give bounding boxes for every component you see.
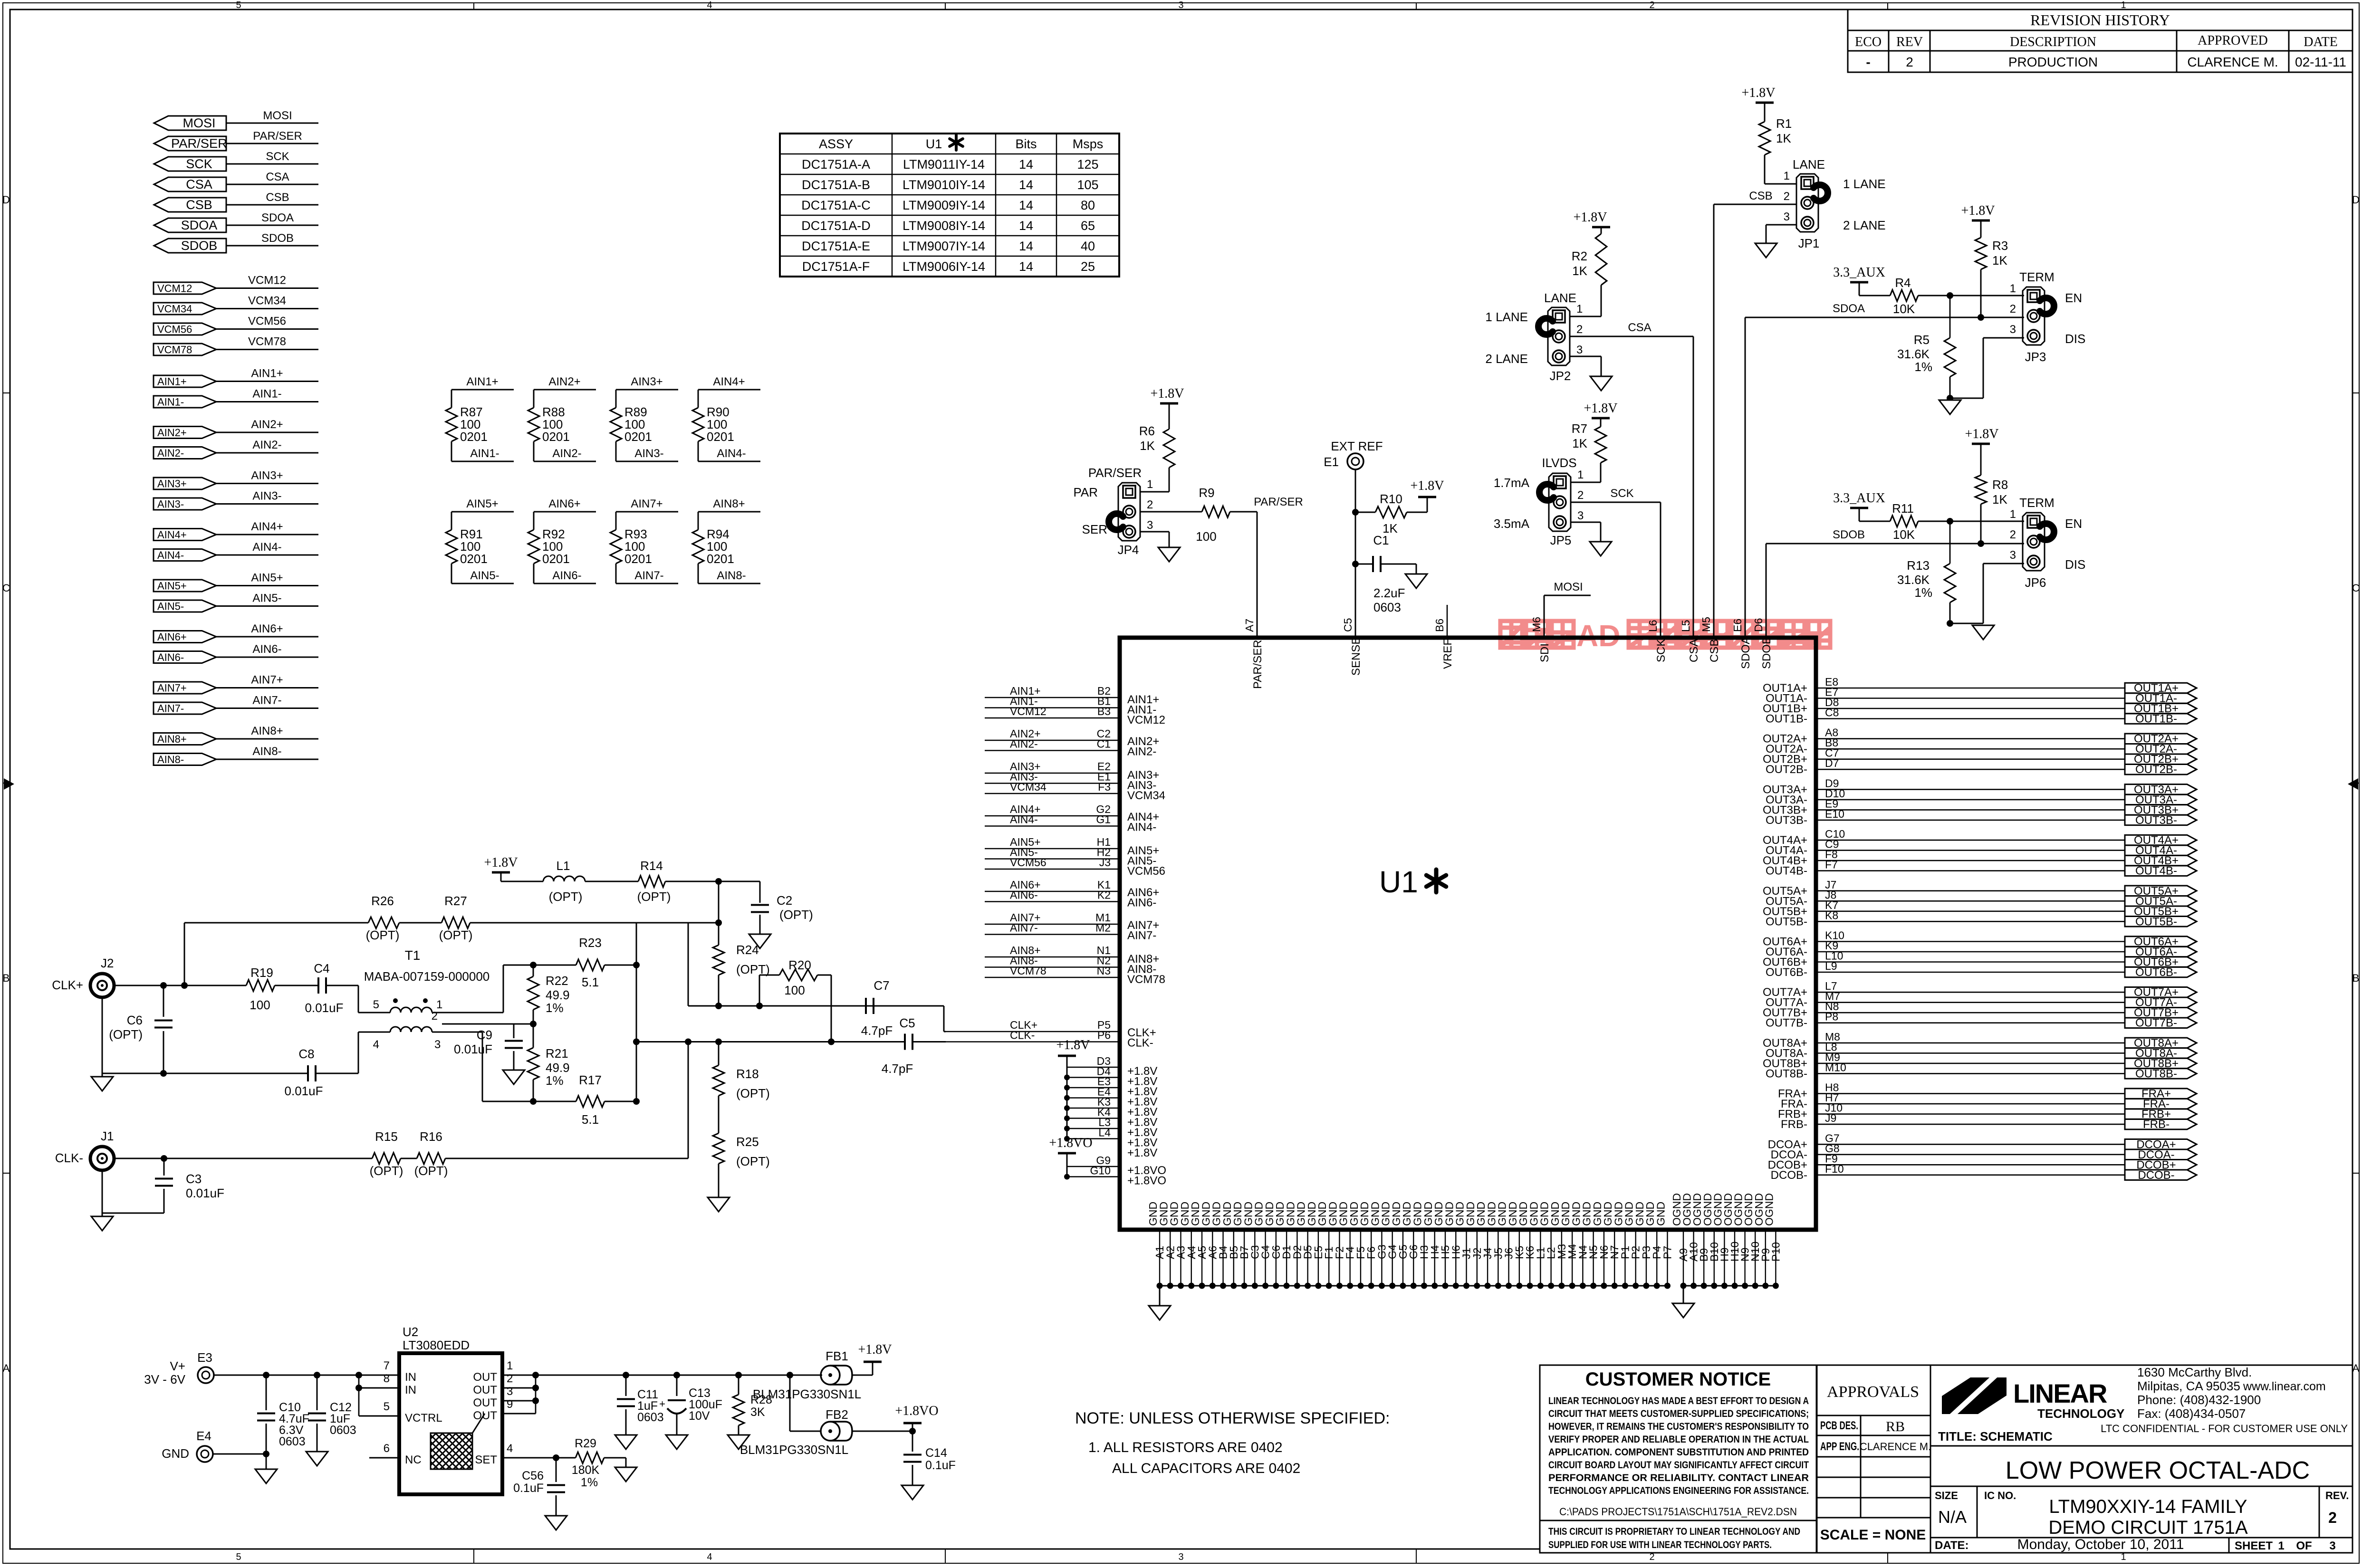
svg-text:OUT6B-: OUT6B- xyxy=(1766,966,1807,979)
svg-text:MABA-007159-000000: MABA-007159-000000 xyxy=(364,969,490,984)
svg-text:LINEAR: LINEAR xyxy=(2013,1378,2107,1408)
svg-text:+1.8V: +1.8V xyxy=(1573,210,1607,225)
svg-text:2: 2 xyxy=(507,1372,513,1385)
svg-text:OUT8B-: OUT8B- xyxy=(2135,1067,2177,1080)
svg-text:0603: 0603 xyxy=(279,1435,306,1448)
svg-text:E1: E1 xyxy=(1324,455,1339,469)
svg-text:OUT: OUT xyxy=(473,1384,497,1396)
svg-text:R11: R11 xyxy=(1892,501,1914,516)
svg-text:M2: M2 xyxy=(1095,922,1111,934)
svg-text:2: 2 xyxy=(2328,1509,2337,1526)
svg-text:P7: P7 xyxy=(1661,1246,1673,1259)
svg-text:PCB DES.: PCB DES. xyxy=(1820,1419,1858,1432)
svg-text:1K: 1K xyxy=(1572,436,1587,450)
svg-text:AIN3+: AIN3+ xyxy=(251,469,283,482)
svg-text:(OPT): (OPT) xyxy=(637,889,671,904)
svg-text:DC1751A-A: DC1751A-A xyxy=(802,157,870,172)
svg-text:AIN5-: AIN5- xyxy=(470,569,499,582)
svg-text:CSB: CSB xyxy=(266,191,289,204)
svg-text:OUT7B-: OUT7B- xyxy=(2135,1017,2177,1030)
svg-text:(OPT): (OPT) xyxy=(779,908,813,922)
svg-text:3: 3 xyxy=(1784,210,1790,223)
svg-text:AIN2+: AIN2+ xyxy=(251,418,283,431)
svg-text:DATE:: DATE: xyxy=(1935,1539,1969,1552)
svg-text:1.7mA: 1.7mA xyxy=(1494,476,1530,490)
svg-text:JP3: JP3 xyxy=(2025,350,2046,364)
svg-text:0.01uF: 0.01uF xyxy=(285,1084,323,1098)
svg-text:DCOB-: DCOB- xyxy=(2138,1169,2174,1182)
svg-text:R29: R29 xyxy=(575,1437,596,1450)
svg-text:1K: 1K xyxy=(1572,264,1587,278)
svg-text:1630 McCarthy Blvd.: 1630 McCarthy Blvd. xyxy=(2137,1365,2252,1379)
svg-text:B3: B3 xyxy=(1097,705,1111,717)
svg-text:JP5: JP5 xyxy=(1550,533,1572,547)
svg-text:C9: C9 xyxy=(477,1028,492,1042)
svg-text:AIN3-: AIN3- xyxy=(252,490,281,503)
svg-text:SDOA: SDOA xyxy=(261,211,294,224)
svg-text:4.7pF: 4.7pF xyxy=(861,1023,893,1038)
svg-text:VCM78: VCM78 xyxy=(248,335,286,348)
svg-text:AIN8-: AIN8- xyxy=(717,569,746,582)
svg-text:9: 9 xyxy=(507,1398,513,1411)
svg-text:25: 25 xyxy=(1081,259,1095,274)
svg-text:2.2uF: 2.2uF xyxy=(1373,586,1405,600)
svg-text:8: 8 xyxy=(384,1372,390,1385)
svg-text:JP4: JP4 xyxy=(1118,543,1139,557)
svg-text:1: 1 xyxy=(2010,508,2016,521)
svg-text:J9: J9 xyxy=(1825,1112,1836,1124)
svg-text:R9: R9 xyxy=(1199,486,1214,500)
svg-text:DATE: DATE xyxy=(2304,35,2338,49)
svg-text:R18: R18 xyxy=(736,1067,759,1081)
svg-text:REVISION HISTORY: REVISION HISTORY xyxy=(2030,11,2170,29)
svg-text:R6: R6 xyxy=(1139,424,1155,438)
svg-text:L1: L1 xyxy=(557,859,570,873)
svg-text:80: 80 xyxy=(1081,198,1095,212)
svg-text:+: + xyxy=(659,1398,665,1410)
svg-text:0603: 0603 xyxy=(637,1411,664,1424)
svg-text:PERFORMANCE OR RELIABILITY. C: PERFORMANCE OR RELIABILITY. CONTACT LINE… xyxy=(1548,1472,1809,1483)
svg-text:0.1uF: 0.1uF xyxy=(513,1482,544,1495)
svg-text:LANE: LANE xyxy=(1793,157,1825,172)
svg-text:10K: 10K xyxy=(1893,527,1915,542)
svg-text:DC1751A-C: DC1751A-C xyxy=(801,198,871,212)
svg-text:AIN4+: AIN4+ xyxy=(713,375,745,388)
svg-text:31.6K: 31.6K xyxy=(1897,347,1930,361)
svg-text:4: 4 xyxy=(373,1038,379,1051)
svg-text:J3: J3 xyxy=(1099,856,1111,869)
svg-text:6: 6 xyxy=(384,1442,390,1455)
svg-text:1%: 1% xyxy=(546,1073,564,1088)
svg-text:U1: U1 xyxy=(926,137,942,151)
svg-text:AIN1-: AIN1- xyxy=(157,396,184,408)
svg-text:DC1751A-E: DC1751A-E xyxy=(802,239,870,253)
svg-text:AIN3+: AIN3+ xyxy=(631,375,663,388)
svg-text:1%: 1% xyxy=(546,1001,564,1015)
svg-text:3: 3 xyxy=(1178,0,1183,10)
svg-text:C3: C3 xyxy=(186,1172,202,1186)
svg-text:OUT: OUT xyxy=(473,1371,497,1384)
svg-text:+1.8V: +1.8V xyxy=(1961,203,1995,218)
svg-text:L9: L9 xyxy=(1825,960,1837,972)
svg-text:C8: C8 xyxy=(298,1047,314,1061)
svg-text:E10: E10 xyxy=(1825,808,1844,820)
svg-text:REV.: REV. xyxy=(2325,1490,2349,1501)
svg-text:TECHNOLOGY APPLICATIONS ENGINE: TECHNOLOGY APPLICATIONS ENGINEERING FOR … xyxy=(1548,1485,1809,1496)
svg-text:2: 2 xyxy=(1906,55,1913,69)
svg-text:CIRCUIT THAT MEETS CUSTOMER-SU: CIRCUIT THAT MEETS CUSTOMER-SUPPLIED SPE… xyxy=(1548,1408,1809,1419)
svg-text:CLARENCE M.: CLARENCE M. xyxy=(2187,55,2278,69)
svg-text:3: 3 xyxy=(1178,1552,1183,1562)
svg-text:+1.8VO: +1.8VO xyxy=(895,1404,938,1418)
svg-text:CSA: CSA xyxy=(266,171,289,183)
svg-text:A: A xyxy=(3,1362,10,1374)
svg-text:10K: 10K xyxy=(1893,302,1915,316)
svg-text:OUT6B-: OUT6B- xyxy=(2135,966,2177,979)
svg-text:1K: 1K xyxy=(1140,439,1155,453)
svg-text:100: 100 xyxy=(784,983,805,997)
svg-text:IC NO.: IC NO. xyxy=(1984,1490,2016,1501)
svg-text:OUT2B-: OUT2B- xyxy=(2135,763,2177,776)
svg-text:OUT: OUT xyxy=(473,1409,497,1422)
svg-text:FRB-: FRB- xyxy=(2143,1118,2170,1131)
svg-text:R3: R3 xyxy=(1992,239,2008,253)
svg-text:CSB: CSB xyxy=(186,198,212,212)
svg-text:NC: NC xyxy=(405,1453,422,1466)
svg-text:Msps: Msps xyxy=(1073,137,1104,151)
svg-text:AIN8-: AIN8- xyxy=(252,745,281,758)
svg-text:AIN2-: AIN2- xyxy=(157,447,184,459)
svg-text:CSA: CSA xyxy=(1628,321,1651,334)
svg-text:+1.8VO: +1.8VO xyxy=(1127,1175,1166,1187)
svg-text:R16: R16 xyxy=(420,1129,442,1144)
svg-text:AIN4-: AIN4- xyxy=(252,541,281,554)
svg-text:LOW POWER OCTAL-ADC: LOW POWER OCTAL-ADC xyxy=(2006,1457,2310,1484)
svg-text:5: 5 xyxy=(236,1552,241,1562)
svg-text:N3: N3 xyxy=(1097,965,1111,977)
svg-text:C4: C4 xyxy=(314,961,329,975)
svg-text:AIN6-: AIN6- xyxy=(1127,897,1156,909)
svg-text:(OPT): (OPT) xyxy=(549,889,583,904)
svg-text:F3: F3 xyxy=(1098,781,1111,793)
svg-text:AIN6-: AIN6- xyxy=(157,651,184,663)
svg-text:2: 2 xyxy=(1147,498,1153,511)
svg-text:+1.8V: +1.8V xyxy=(1584,401,1617,416)
svg-text:2: 2 xyxy=(1576,323,1583,336)
svg-text:R17: R17 xyxy=(579,1073,602,1087)
svg-text:D7: D7 xyxy=(1825,757,1839,769)
svg-text:3: 3 xyxy=(507,1385,513,1398)
svg-text:LTM90XXIY-14 FAMILY: LTM90XXIY-14 FAMILY xyxy=(2049,1496,2247,1517)
svg-text:DC1751A-D: DC1751A-D xyxy=(801,219,871,233)
svg-text:3: 3 xyxy=(2010,549,2016,562)
svg-text:02-11-11: 02-11-11 xyxy=(2295,55,2346,69)
svg-text:C8: C8 xyxy=(1825,707,1839,719)
svg-text:DESCRIPTION: DESCRIPTION xyxy=(2010,35,2096,49)
svg-text:C2: C2 xyxy=(777,893,792,908)
svg-text:1: 1 xyxy=(507,1359,513,1372)
svg-text:SENSE: SENSE xyxy=(1350,637,1363,676)
svg-text:7: 7 xyxy=(384,1359,390,1372)
svg-text:VCM12: VCM12 xyxy=(248,274,286,287)
svg-text:1K: 1K xyxy=(1992,492,2007,507)
svg-text:AIN2-: AIN2- xyxy=(552,447,581,460)
svg-text:0.01uF: 0.01uF xyxy=(454,1042,492,1056)
svg-text:3.3_AUX: 3.3_AUX xyxy=(1833,265,1885,280)
svg-text:R10: R10 xyxy=(1380,492,1402,506)
svg-text:1K: 1K xyxy=(1776,131,1791,145)
svg-text:AIN8+: AIN8+ xyxy=(713,497,745,510)
svg-text:L4: L4 xyxy=(1098,1127,1111,1139)
svg-text:D: D xyxy=(2,194,10,206)
svg-text:C: C xyxy=(2352,582,2360,594)
svg-text:VCTRL: VCTRL xyxy=(405,1412,442,1425)
svg-text:1: 1 xyxy=(1784,170,1790,182)
svg-text:3.5mA: 3.5mA xyxy=(1494,516,1530,531)
svg-text:3: 3 xyxy=(1147,519,1153,532)
svg-text:VCM34: VCM34 xyxy=(248,295,286,307)
svg-text:B: B xyxy=(3,972,10,984)
svg-text:R26: R26 xyxy=(371,894,394,908)
svg-text:VCM78: VCM78 xyxy=(1127,973,1165,986)
svg-text:HOWEVER, IT REMAINS THE CUSTOM: HOWEVER, IT REMAINS THE CUSTOMER'S RESPO… xyxy=(1548,1421,1809,1432)
svg-text:R22: R22 xyxy=(546,974,568,988)
svg-text:AIN7-: AIN7- xyxy=(252,694,281,707)
svg-text:AD: AD xyxy=(1576,619,1620,653)
svg-text:DEMO CIRCUIT 1751A: DEMO CIRCUIT 1751A xyxy=(2048,1517,2248,1538)
svg-text:CSB: CSB xyxy=(1749,190,1772,202)
svg-text:AIN2-: AIN2- xyxy=(1127,746,1156,758)
svg-text:1 LANE: 1 LANE xyxy=(1485,310,1528,324)
svg-text:C5: C5 xyxy=(1342,618,1354,632)
svg-text:www.linear.com: www.linear.com xyxy=(2243,1380,2326,1393)
svg-text:5.1: 5.1 xyxy=(582,975,599,989)
svg-text:A: A xyxy=(2352,1362,2360,1374)
svg-text:OUT4B-: OUT4B- xyxy=(1766,865,1807,878)
svg-text:105: 105 xyxy=(1077,178,1098,192)
svg-text:PAR/SER: PAR/SER xyxy=(253,130,302,143)
svg-text:14: 14 xyxy=(1019,259,1033,274)
svg-text:3: 3 xyxy=(1576,344,1583,356)
svg-text:IN: IN xyxy=(405,1384,416,1396)
svg-text:4: 4 xyxy=(707,0,712,10)
svg-text:0201: 0201 xyxy=(542,430,570,444)
svg-text:LINEAR TECHNOLOGY HAS MADE A B: LINEAR TECHNOLOGY HAS MADE A BEST EFFORT… xyxy=(1548,1395,1809,1406)
svg-text:CLARENCE M.: CLARENCE M. xyxy=(1860,1441,1931,1453)
svg-text:AIN5-: AIN5- xyxy=(252,592,281,605)
svg-text:P10: P10 xyxy=(1769,1242,1782,1262)
svg-text:PAR/SER: PAR/SER xyxy=(1088,466,1142,480)
svg-text:G10: G10 xyxy=(1090,1165,1111,1177)
svg-text:1. ALL RESISTORS ARE 0402: 1. ALL RESISTORS ARE 0402 xyxy=(1088,1440,1283,1455)
svg-text:+1.8V: +1.8V xyxy=(1741,86,1775,100)
svg-text:APPLICATION. COMPONENT SUBSTI: APPLICATION. COMPONENT SUBSTITUTION AND … xyxy=(1548,1446,1809,1458)
svg-text:+1.8V: +1.8V xyxy=(1127,1147,1157,1159)
svg-text:E3: E3 xyxy=(197,1350,212,1365)
svg-text:SDOB: SDOB xyxy=(1833,528,1865,541)
svg-text:R2: R2 xyxy=(1572,249,1587,263)
svg-text:3K: 3K xyxy=(750,1405,765,1419)
svg-text:R4: R4 xyxy=(1895,276,1911,290)
svg-text:+1.8VO: +1.8VO xyxy=(1049,1136,1092,1150)
svg-text:1%: 1% xyxy=(1914,585,1932,600)
svg-text:U1: U1 xyxy=(1379,865,1418,899)
svg-text:2: 2 xyxy=(1649,0,1654,10)
svg-text:GND: GND xyxy=(162,1446,189,1461)
svg-text:AIN7-: AIN7- xyxy=(634,569,663,582)
svg-text:OUT3B-: OUT3B- xyxy=(1766,814,1807,827)
svg-text:AIN5+: AIN5+ xyxy=(157,580,187,592)
svg-text:OUT1B-: OUT1B- xyxy=(1766,713,1807,726)
svg-text:B6: B6 xyxy=(1433,619,1446,632)
svg-text:OGND: OGND xyxy=(1763,1193,1775,1226)
svg-text:C5: C5 xyxy=(899,1016,915,1030)
svg-text:SET: SET xyxy=(475,1453,497,1466)
svg-text:AIN2+: AIN2+ xyxy=(548,375,580,388)
svg-text:Bits: Bits xyxy=(1015,137,1037,151)
svg-text:AIN4-: AIN4- xyxy=(717,447,746,460)
svg-text:14: 14 xyxy=(1019,157,1033,172)
svg-text:SUPPLIED FOR USE WITH LINEAR T: SUPPLIED FOR USE WITH LINEAR TECHNOLOGY … xyxy=(1548,1539,1772,1550)
svg-text:SDOB: SDOB xyxy=(261,232,294,245)
svg-text:R19: R19 xyxy=(250,966,273,980)
svg-text:0.01uF: 0.01uF xyxy=(305,1001,344,1015)
svg-text:DC1751A-F: DC1751A-F xyxy=(802,259,870,274)
svg-text:EN: EN xyxy=(2065,516,2082,531)
svg-text:AIN6-: AIN6- xyxy=(252,643,281,656)
svg-text:+1.8V: +1.8V xyxy=(1150,386,1184,401)
svg-text:2: 2 xyxy=(1784,190,1790,203)
svg-text:3V - 6V: 3V - 6V xyxy=(144,1372,185,1386)
svg-text:A7: A7 xyxy=(1243,619,1256,632)
svg-text:JP1: JP1 xyxy=(1798,236,1820,250)
svg-text:PAR/SER: PAR/SER xyxy=(1251,640,1264,689)
svg-text:T1: T1 xyxy=(405,948,421,963)
svg-text:C14: C14 xyxy=(925,1446,947,1460)
svg-text:VCM12: VCM12 xyxy=(157,283,192,295)
svg-text:AIN4-: AIN4- xyxy=(1010,813,1038,826)
svg-text:R25: R25 xyxy=(736,1135,759,1149)
svg-text:3: 3 xyxy=(2010,323,2016,336)
svg-text:49.9: 49.9 xyxy=(546,1061,570,1075)
svg-text:SHEET: SHEET xyxy=(2235,1539,2273,1552)
svg-text:VCM12: VCM12 xyxy=(1010,705,1047,717)
svg-text:100: 100 xyxy=(250,998,270,1012)
svg-text:65: 65 xyxy=(1081,219,1095,233)
svg-text:49.9: 49.9 xyxy=(546,988,570,1002)
svg-text:OUT3B-: OUT3B- xyxy=(2135,814,2177,827)
svg-text:AIN6+: AIN6+ xyxy=(251,622,283,635)
svg-text:1: 1 xyxy=(1576,303,1583,316)
svg-text:LANE: LANE xyxy=(1544,291,1576,305)
svg-text:AIN7-: AIN7- xyxy=(1127,929,1156,942)
svg-text:0201: 0201 xyxy=(460,552,488,566)
svg-text:2: 2 xyxy=(2010,528,2016,541)
svg-text:RB: RB xyxy=(1886,1419,1905,1434)
svg-text:CLK-: CLK- xyxy=(1127,1037,1153,1050)
svg-text:0201: 0201 xyxy=(707,552,734,566)
svg-text:(OPT): (OPT) xyxy=(736,1154,770,1168)
svg-text:(OPT): (OPT) xyxy=(366,928,400,942)
svg-text:AIN2-: AIN2- xyxy=(1010,738,1038,750)
svg-text:N/A: N/A xyxy=(1938,1507,1967,1527)
svg-text:VCM78: VCM78 xyxy=(157,344,192,356)
svg-text:-: - xyxy=(1866,55,1870,69)
svg-text:VCM12: VCM12 xyxy=(1127,714,1165,727)
svg-text:C: C xyxy=(2,582,10,594)
svg-text:AIN7-: AIN7- xyxy=(1010,922,1038,934)
svg-text:D: D xyxy=(2352,194,2360,206)
svg-text:(OPT): (OPT) xyxy=(414,1164,448,1178)
svg-text:AIN7+: AIN7+ xyxy=(631,497,663,510)
svg-text:1K: 1K xyxy=(1992,253,2007,268)
svg-text:M10: M10 xyxy=(1825,1061,1846,1073)
svg-text:GND: GND xyxy=(1654,1202,1667,1226)
svg-text:TITLE: SCHEMATIC: TITLE: SCHEMATIC xyxy=(1938,1429,2053,1444)
svg-text:AIN4+: AIN4+ xyxy=(157,529,187,541)
svg-text:+1.8V: +1.8V xyxy=(484,855,518,870)
svg-text:OUT5B-: OUT5B- xyxy=(1766,915,1807,928)
svg-text:5.1: 5.1 xyxy=(582,1112,599,1127)
svg-text:(OPT): (OPT) xyxy=(370,1164,403,1178)
svg-text:31.6K: 31.6K xyxy=(1897,573,1930,587)
svg-text:SCALE = NONE: SCALE = NONE xyxy=(1820,1527,1926,1543)
svg-text:EN: EN xyxy=(2065,291,2082,305)
svg-text:125: 125 xyxy=(1077,157,1098,172)
svg-text:C6: C6 xyxy=(127,1013,143,1027)
svg-text:4.7pF: 4.7pF xyxy=(882,1061,913,1076)
svg-text:OUT4B-: OUT4B- xyxy=(2135,865,2177,878)
svg-text:AIN1+: AIN1+ xyxy=(251,367,283,380)
svg-text:VREF: VREF xyxy=(1441,639,1454,669)
svg-text:ALL CAPACITORS ARE 0402: ALL CAPACITORS ARE 0402 xyxy=(1112,1461,1300,1476)
svg-text:F10: F10 xyxy=(1825,1163,1844,1175)
svg-text:TECHNOLOGY: TECHNOLOGY xyxy=(2037,1406,2124,1421)
svg-text:AIN7+: AIN7+ xyxy=(251,674,283,687)
svg-text:4: 4 xyxy=(507,1442,513,1455)
svg-text:VCM56: VCM56 xyxy=(1127,865,1165,878)
svg-text:C56: C56 xyxy=(522,1469,544,1482)
svg-text:40: 40 xyxy=(1081,239,1095,253)
svg-text:LTM9007IY-14: LTM9007IY-14 xyxy=(903,239,985,253)
svg-text:LTM9010IY-14: LTM9010IY-14 xyxy=(903,178,985,192)
svg-text:REV: REV xyxy=(1896,35,1923,49)
svg-text:10V: 10V xyxy=(689,1409,710,1423)
svg-text:EXT REF: EXT REF xyxy=(1331,439,1383,453)
svg-text:BLM31PG330SN1L: BLM31PG330SN1L xyxy=(740,1443,848,1457)
svg-text:2 LANE: 2 LANE xyxy=(1485,352,1528,366)
svg-text:AIN8+: AIN8+ xyxy=(251,725,283,737)
svg-text:+1.8V: +1.8V xyxy=(1410,478,1444,493)
svg-text:14: 14 xyxy=(1019,178,1033,192)
svg-text:CLK+: CLK+ xyxy=(52,978,83,992)
svg-text:R14: R14 xyxy=(640,859,663,873)
svg-text:5: 5 xyxy=(373,998,379,1011)
svg-text:E4: E4 xyxy=(196,1429,211,1443)
svg-text:ECO: ECO xyxy=(1855,35,1882,49)
svg-text:3: 3 xyxy=(434,1038,441,1051)
svg-text:0603: 0603 xyxy=(330,1424,356,1437)
svg-text:AIN5+: AIN5+ xyxy=(466,497,498,510)
svg-text:1: 1 xyxy=(1147,478,1153,491)
svg-text:1%: 1% xyxy=(581,1476,598,1489)
svg-text:DCOB-: DCOB- xyxy=(1771,1169,1807,1182)
svg-text:MOSI: MOSI xyxy=(1554,581,1583,593)
svg-text:R15: R15 xyxy=(375,1129,398,1144)
svg-text:OUT8B-: OUT8B- xyxy=(1766,1067,1807,1080)
svg-text:CUSTOMER NOTICE: CUSTOMER NOTICE xyxy=(1585,1369,1771,1390)
svg-text:R13: R13 xyxy=(1907,558,1930,573)
